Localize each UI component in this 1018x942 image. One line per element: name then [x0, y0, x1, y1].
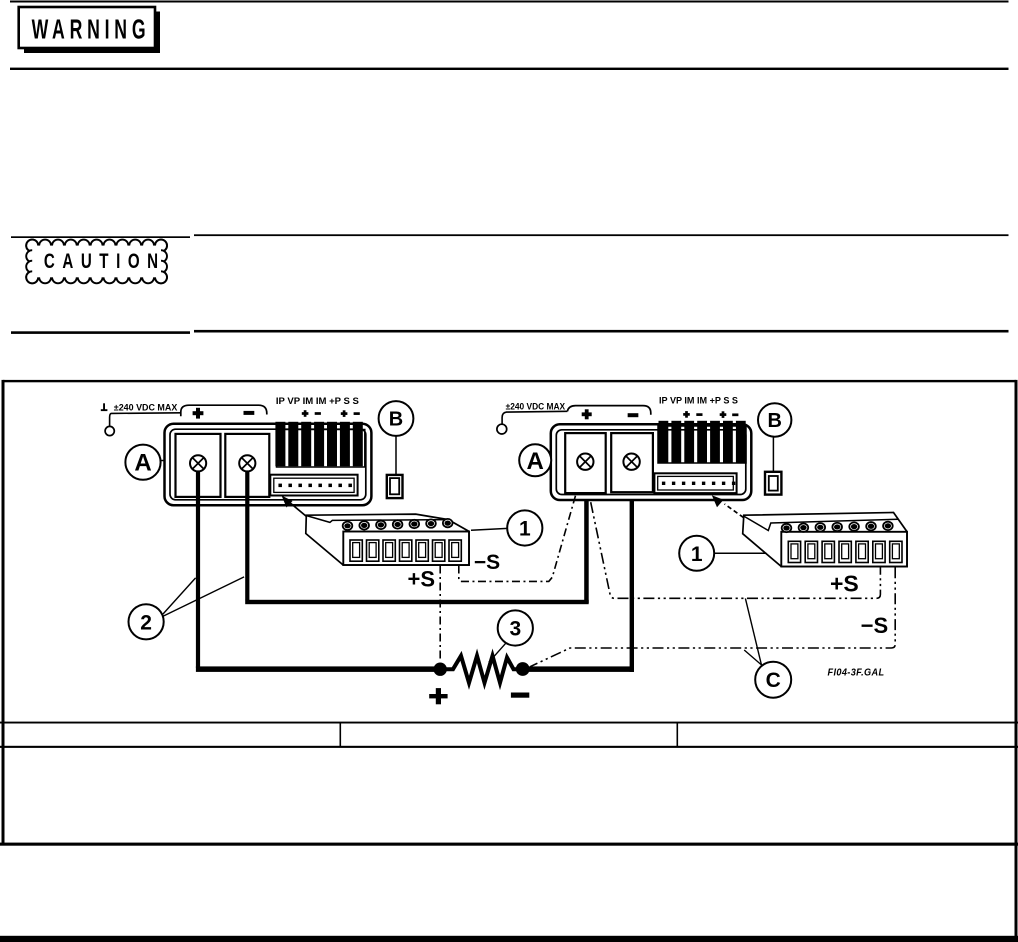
- PS2 + binding post square: [565, 433, 606, 493]
- PS2 plus label above + post: [582, 409, 592, 419]
- PS2 sense connector strip pins: [662, 482, 735, 485]
- svg-text:WARNING: WARNING: [32, 13, 151, 44]
- callout circle B (PS2): [758, 403, 791, 436]
- table row rule: [0, 746, 1018, 748]
- svg-text:A: A: [527, 448, 544, 475]
- arrow from P1 to PS1 connector strip: [282, 496, 307, 517]
- figure frame right border: [1015, 380, 1018, 942]
- svg-text:+S: +S: [830, 571, 859, 597]
- PS2 -S remote sense lead to load -: [530, 567, 895, 666]
- PS2 rear terminal recess: [658, 426, 746, 463]
- svg-text:3: 3: [509, 618, 521, 641]
- sense plug P1 (item 1, PS1): [306, 514, 469, 565]
- svg-text:1: 1: [519, 518, 531, 541]
- PS2 chassis inner outline: [556, 430, 746, 495]
- sense plug P2 (item 1, PS2): [743, 513, 907, 567]
- svg-text:A: A: [134, 450, 151, 477]
- PS2 sense connector strip: [654, 473, 736, 493]
- callout circle 1 (PS2 plug): [679, 536, 766, 571]
- PS1 terminal polarity marks + - + -: [302, 410, 360, 417]
- table thick rule: [0, 843, 1018, 846]
- load resistor R (item 3): [447, 656, 518, 683]
- PS1 plus label above + post: [193, 408, 204, 419]
- rule above caution, right segment: [194, 234, 1009, 236]
- figure frame bottom border / table top rule: [0, 722, 1018, 724]
- PS2 label ±240 VDC MAX: [506, 402, 565, 412]
- PS2 terminal labels IP VP IM IM +P S S: [659, 396, 738, 406]
- PS2 - binding post square: [611, 433, 653, 492]
- page top rule: [10, 1, 1009, 3]
- PS2 terminal polarity marks + - + -: [683, 411, 738, 418]
- PS2 label underline and lead to ground terminal: [502, 411, 567, 424]
- PS1 - binding post screw: [239, 455, 255, 471]
- svg-text:1: 1: [691, 543, 703, 566]
- rule below caution, left segment: [11, 331, 190, 334]
- figure frame left border: [2, 380, 5, 844]
- PS1 label underline and lead to ground terminal: [110, 413, 181, 427]
- svg-text:B: B: [389, 409, 403, 431]
- svg-text:CAUTION: CAUTION: [44, 249, 166, 273]
- wire W1: PS1 + post down to load + node: [196, 470, 442, 672]
- svg-text:−S: −S: [861, 613, 889, 638]
- PS1 + binding post screw: [190, 455, 206, 471]
- WARNING sign: [19, 7, 160, 53]
- PS2 +S remote sense lead to series junction: [591, 502, 881, 598]
- PS1 terminal labels IP VP IM IM +P S S: [276, 396, 359, 406]
- svg-text:IP VP IM IM +P S S: IP VP IM IM +P S S: [276, 396, 359, 406]
- PS2 chassis outer outline: [551, 424, 752, 500]
- PS1 label ±240 VDC MAX: [114, 402, 178, 412]
- PS1 chassis inner outline: [170, 429, 366, 500]
- power supply PS2 ground terminal circle: [497, 424, 507, 434]
- table cell divider tick 2: [677, 722, 679, 747]
- wire W2: PS1 - post down, across, up to PS2 + post (series junction): [245, 470, 589, 605]
- table cell divider tick 1: [340, 722, 342, 747]
- PS1 sense connector strip pins: [278, 484, 352, 488]
- load + polarity label: [429, 688, 447, 704]
- load + node: [434, 663, 447, 676]
- rule below warning: [10, 68, 1009, 70]
- PS1 +S label: [408, 566, 436, 591]
- arrow from P2 to PS2 connector strip: [712, 495, 744, 517]
- svg-text:±240 VDC MAX: ±240 VDC MAX: [114, 402, 178, 412]
- PS1 ground symbol: [101, 403, 108, 411]
- PS2 sense jumper below B: [765, 437, 781, 495]
- figure frame top border: [3, 380, 1016, 382]
- svg-text:±240 VDC MAX: ±240 VDC MAX: [506, 402, 565, 412]
- PS2 - binding post screw: [623, 454, 639, 470]
- svg-text:+S: +S: [408, 566, 436, 591]
- power supply PS1 ground terminal circle: [105, 426, 114, 435]
- svg-text:−S: −S: [474, 551, 500, 574]
- callout circle 3 with leader line to resistor: [489, 610, 533, 662]
- load - node: [516, 662, 530, 676]
- PS1 -S remote sense lead to series junction: [459, 493, 577, 582]
- PS2 output bracket: [567, 406, 650, 415]
- load - polarity label: [511, 693, 529, 698]
- rule above caution, left segment: [11, 236, 190, 238]
- svg-text:B: B: [767, 410, 781, 432]
- rule below caution, right segment: [194, 330, 1009, 333]
- PS1 chassis outer outline: [165, 424, 372, 506]
- PS1 sense connector strip: [270, 475, 357, 496]
- wire W3: PS2 - post down to load - node: [523, 470, 634, 672]
- figure file id F104-3F.GAL: [828, 668, 885, 679]
- CAUTION sign: [26, 240, 167, 284]
- PS1 +S remote sense lead to load +: [439, 566, 441, 662]
- PS2 minus label above - post: [628, 413, 639, 417]
- callout circle A (PS2): [519, 444, 551, 476]
- PS2 +S label: [830, 571, 859, 597]
- PS1 output bracket: [181, 405, 267, 416]
- callout circle 1 (PS1 plug): [471, 510, 542, 545]
- PS1 sense jumper below B: [387, 436, 403, 498]
- svg-text:IP VP IM IM +P S S: IP VP IM IM +P S S: [659, 396, 738, 406]
- PS1 + binding post square: [176, 434, 221, 497]
- callout circle B (PS1): [379, 401, 414, 436]
- svg-text:FI04-3F.GAL: FI04-3F.GAL: [828, 668, 885, 679]
- svg-text:2: 2: [140, 611, 152, 634]
- PS1 minus label above - post: [244, 411, 255, 415]
- callout circle 2 with leader lines to wires W1 W2: [129, 577, 245, 640]
- PS2 + binding post screw: [577, 454, 593, 470]
- PS1 rear terminal comb bars: [275, 422, 362, 467]
- page bottom bar: [0, 936, 1018, 942]
- svg-text:C: C: [766, 669, 781, 692]
- PS2 -S label: [861, 613, 889, 638]
- PS2 rear terminal comb bars: [659, 421, 746, 463]
- PS1 rear terminal recess: [277, 430, 365, 468]
- callout circle C with leader lines to sense leads: [744, 598, 791, 697]
- PS1 -S label: [474, 551, 500, 574]
- PS1 - binding post square: [225, 434, 269, 497]
- callout circle A (PS1): [125, 445, 165, 480]
